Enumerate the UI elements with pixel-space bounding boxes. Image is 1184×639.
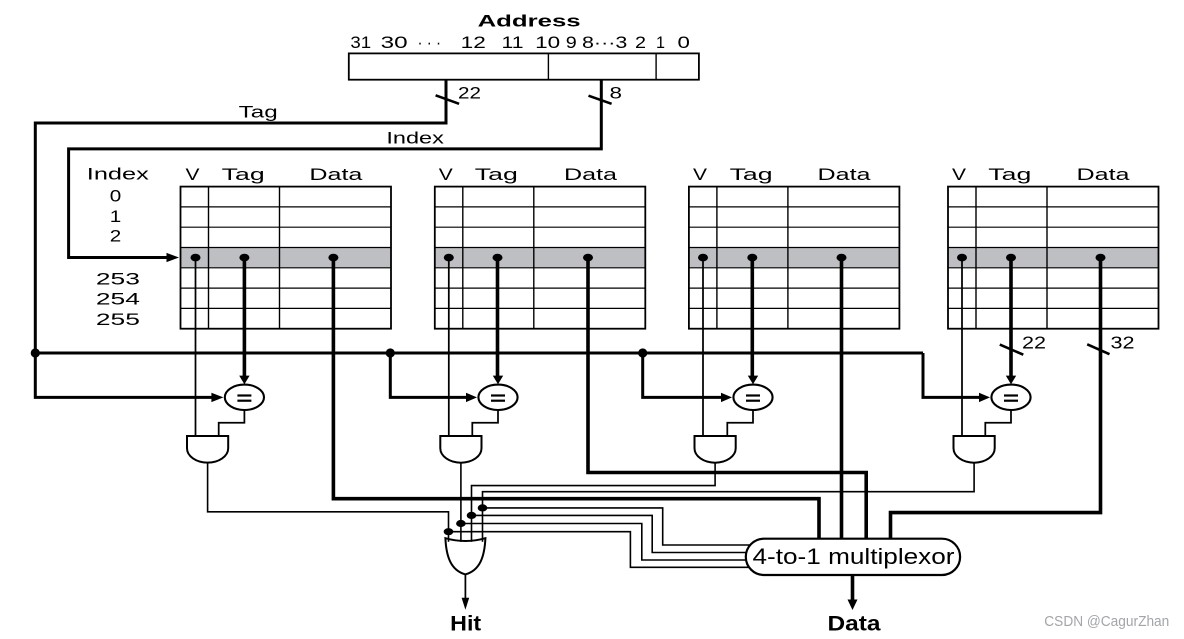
wire hit 3 into OR gate [471,515,473,541]
cache bank 4 selected set row [948,248,1159,268]
wire tag field bank 3 to comparator [750,258,754,377]
wire tag field bank 4 to comparator [1009,258,1013,377]
svg-text:Index: Index [386,129,444,148]
slash bus-width index [589,96,612,104]
arrowhead tag field into comparator 4 [1006,376,1016,385]
node tag field bank 4 [1006,254,1016,262]
svg-text:2: 2 [110,227,122,246]
address register box [349,53,699,79]
wire AND gate 1 output [208,463,449,532]
svg-text:Tag: Tag [239,102,278,121]
svg-text:255: 255 [96,310,140,329]
node hit junction 2 [456,520,466,527]
svg-text:8···3: 8···3 [582,33,627,52]
node valid bit bank 2 [444,254,454,262]
svg-text:CSDN @CagurZhan: CSDN @CagurZhan [1044,614,1169,630]
4-to-1 multiplexor [746,539,960,575]
arrowhead tag into comparator 4 [979,393,990,402]
comparator U3 [733,385,772,410]
svg-text:V: V [952,165,967,184]
wire multiplexor data output [851,575,855,601]
cache bank 1 selected set row [181,248,392,268]
wire AND gate 2 output [460,463,462,524]
wire comparator 3 output to AND gate [727,409,753,436]
svg-text:V: V [186,165,201,184]
wire OR gate output [464,574,466,598]
cache bank 1 table grid [181,187,392,329]
arrowhead hit output [462,598,470,610]
wire tag from address to comparators (left rail) [35,80,446,398]
OR gate (hit) [445,538,485,574]
svg-text:Tag: Tag [475,165,518,184]
svg-text:11: 11 [502,33,524,52]
wire tag tap to comparator 2 [390,353,466,397]
svg-text:V: V [693,165,708,184]
wire valid bit bank 4 to AND gate [961,258,963,436]
slash data width bank 4 [1087,344,1109,354]
wire hit 4 into OR gate [482,508,484,542]
svg-text:Data: Data [818,165,872,184]
wire tag field bank 2 to comparator [496,258,500,377]
arrowhead index into bank tables [167,253,180,262]
wire AND gate 4 output [483,463,975,508]
svg-text:Tag: Tag [222,165,265,184]
svg-text:254: 254 [96,290,140,309]
wire AND gate 3 output [472,463,716,516]
svg-text:V: V [439,165,454,184]
svg-text:12: 12 [461,33,486,52]
arrowhead tag into comparator 2 [466,393,477,402]
node tag rail junction 2 [386,348,395,357]
svg-text:22: 22 [458,83,481,102]
wire hit 2 into OR gate [460,524,462,542]
svg-text:Tag: Tag [730,165,773,184]
wire data field bank 3 to multiplexor [840,258,844,545]
wire data field bank 1 to multiplexor [333,258,819,545]
cache bank 4 table grid [948,187,1159,329]
node hit junction 3 [467,512,477,519]
node valid bit bank 1 [191,254,201,262]
arrowhead tag into comparator 1 [211,393,223,402]
arrowhead tag field into comparator 2 [493,376,503,385]
slash tag width bank 4 [1000,345,1024,355]
AND gate G1 [187,436,228,463]
svg-text:32: 32 [1111,332,1135,352]
wire hit select 1 to multiplexor [449,532,754,568]
wire data field bank 2 to multiplexor [588,258,866,545]
svg-text:1: 1 [110,207,122,226]
node valid bit bank 4 [957,254,967,262]
svg-text:22: 22 [1022,332,1046,352]
svg-text:30: 30 [381,33,408,52]
wire tag tap to comparator 4 [923,353,979,397]
node tag field bank 1 [239,254,249,262]
wire valid bit bank 3 to AND gate [702,258,704,436]
wire valid bit bank 1 to AND gate [195,258,197,436]
arrowhead data output [848,600,858,611]
comparator U4 [991,385,1030,410]
cache bank 3 selected set row [689,248,900,268]
bit numbers 31..0 [350,33,690,52]
svg-text:Tag: Tag [988,165,1031,184]
svg-text:Hit: Hit [450,613,481,636]
wire hit select 4 to multiplexor [483,508,754,545]
svg-text:Index: Index [87,164,150,183]
cache bank 2 selected set row [435,248,646,268]
wire valid bit bank 2 to AND gate [448,258,450,436]
AND gate G4 [954,436,995,463]
svg-text:1: 1 [656,33,665,52]
node data field bank 1 [328,254,338,262]
wire data field bank 4 to multiplexor [891,258,1101,545]
svg-text:253: 253 [96,269,140,288]
wire hit select 2 to multiplexor [461,524,753,561]
cache bank 3 table grid [689,187,900,329]
svg-text:Data: Data [828,613,881,636]
wire tag bus rail [35,352,923,355]
svg-text:2: 2 [635,33,646,52]
node tag field bank 2 [493,254,503,262]
svg-text:· · ·: · · · [418,33,442,52]
svg-text:0: 0 [678,33,690,52]
svg-text:0: 0 [110,187,122,206]
svg-text:9: 9 [566,33,577,52]
svg-text:Data: Data [309,165,363,184]
node tag rail junction 1 [31,348,40,357]
wire hit 1 into OR gate [448,532,450,542]
slash bus-width tag [436,95,460,104]
wire tag field bank 1 to comparator [243,258,247,377]
arrowhead tag field into comparator 3 [748,376,758,385]
wire hit select 3 to multiplexor [472,515,754,552]
node tag rail junction 3 [638,348,647,357]
arrowhead tag field into comparator 1 [239,376,249,385]
svg-text:Data: Data [564,165,618,184]
AND gate G3 [695,436,736,463]
node data field bank 3 [837,254,847,262]
node hit junction 1 [444,528,454,535]
node valid bit bank 3 [698,254,708,262]
svg-text:8: 8 [610,83,623,102]
wire comparator 4 output to AND gate [985,409,1011,436]
cache bank 2 table grid [435,187,646,329]
wire comparator 1 output to AND gate [219,409,245,436]
wire tag tap to comparator 3 [643,353,721,397]
svg-text:Data: Data [1077,165,1131,184]
comparator U2 [478,385,517,410]
svg-text:31: 31 [350,33,371,52]
node tag field bank 3 [747,254,757,262]
comparator U1 [225,385,264,410]
wire comparator 2 output to AND gate [472,409,498,436]
AND gate G2 [440,436,481,463]
svg-text:4-to-1 multiplexor: 4-to-1 multiplexor [753,544,955,569]
wire index from address to tables [69,80,602,258]
node hit junction 4 [478,504,488,511]
node data field bank 4 [1096,254,1106,262]
arrowhead tag into comparator 3 [721,393,732,402]
svg-text:Address: Address [478,11,581,30]
node data field bank 2 [583,254,593,262]
svg-text:10: 10 [535,33,560,52]
